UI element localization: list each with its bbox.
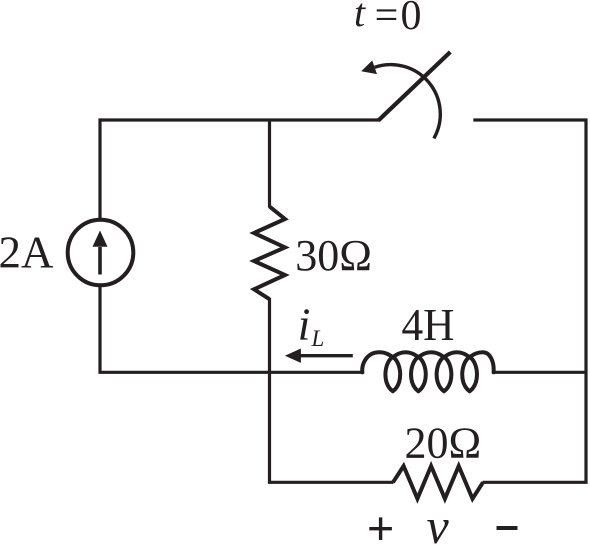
wire middle branch lower + bottom wire left segment <box>270 298 394 482</box>
label + (plus polarity) <box>369 527 392 530</box>
svg-text:20Ω: 20Ω <box>405 419 482 468</box>
svg-text:0: 0 <box>401 0 422 39</box>
wire middle branch upper (top wire to 30ohm resistor) <box>268 120 271 208</box>
wire top-left: left vertical upper + top horizontal to switch hinge <box>100 120 381 221</box>
switch SW blade <box>378 52 450 121</box>
svg-text:v: v <box>427 498 450 544</box>
svg-text:30Ω: 30Ω <box>295 231 372 280</box>
current source arrow (up) <box>98 247 102 275</box>
wire bottom-left: left vertical lower + horizontal at inductor level to coil start <box>100 285 362 373</box>
resistor R1 30ohm (vertical zigzag) <box>254 207 285 300</box>
current label iL arrow (left) <box>301 354 353 357</box>
label - (minus polarity) <box>497 526 518 530</box>
wire right: switch right terminal, right vertical, bottom-right segment <box>473 120 586 482</box>
resistor R2 20ohm (horizontal zigzag) <box>393 466 483 499</box>
current source I1 circle <box>68 220 134 286</box>
wire inductor right to right vertical <box>494 371 586 374</box>
svg-text:=: = <box>375 0 399 39</box>
svg-text:L: L <box>311 326 325 351</box>
inductor L1 4H coil <box>362 352 493 391</box>
svg-text:4H: 4H <box>402 299 455 350</box>
switch arc arrowhead <box>361 61 377 75</box>
switch arc <box>375 65 441 139</box>
svg-text:2A: 2A <box>0 228 54 278</box>
svg-text:i: i <box>298 298 311 349</box>
svg-text:t: t <box>354 0 366 35</box>
